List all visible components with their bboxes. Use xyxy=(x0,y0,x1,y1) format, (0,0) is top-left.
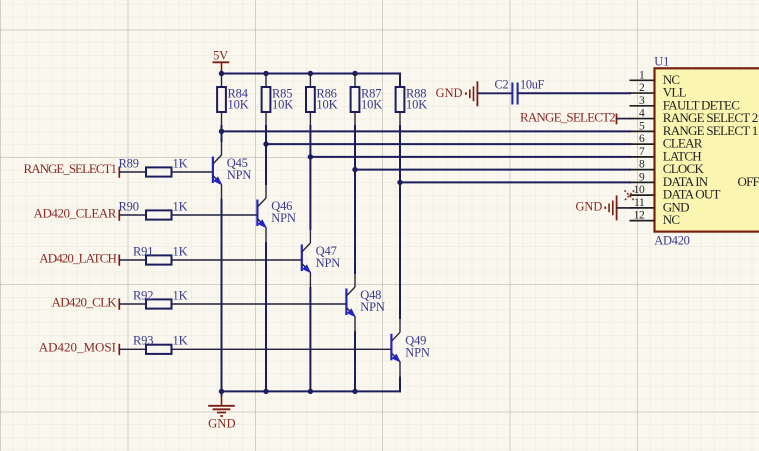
wire collector Q47 xyxy=(309,157,311,243)
pin 3 FAULT DETEC xyxy=(630,95,740,113)
no-ERC marker X pin10 xyxy=(624,190,634,200)
svg-text:5: 5 xyxy=(639,120,645,132)
node junction bottom rail col2 xyxy=(263,389,268,394)
resistor R88 10K xyxy=(396,74,428,113)
capacitor C2 10uF xyxy=(495,78,545,105)
wire top 5V rail xyxy=(221,74,402,88)
svg-text:10K: 10K xyxy=(316,98,337,112)
node junction bottom rail col4 xyxy=(352,389,357,394)
resistor R91 1K xyxy=(133,244,188,264)
svg-text:9: 9 xyxy=(639,171,645,183)
transistor Q47 NPN xyxy=(302,243,340,273)
wire RANGE_SELECT1 to R89 xyxy=(119,171,146,173)
svg-text:10K: 10K xyxy=(361,98,382,112)
svg-text:1K: 1K xyxy=(173,156,188,170)
wire emitter Q49 to rail xyxy=(399,362,401,393)
svg-text:AD420_LATCH: AD420_LATCH xyxy=(39,250,116,265)
wire R92 to base Q48 xyxy=(172,303,347,305)
node junction bottom rail col1 xyxy=(219,389,224,394)
node collector junction Q49 xyxy=(397,180,402,185)
svg-text:1K: 1K xyxy=(173,288,188,302)
resistor R87 10K xyxy=(351,74,383,113)
op-amp U1 AD420 body xyxy=(654,54,759,247)
net label RANGE_SELECT1 xyxy=(24,161,120,178)
svg-text:NPN: NPN xyxy=(316,256,341,270)
resistor R92 1K xyxy=(133,288,188,308)
wire R90 to base Q46 xyxy=(172,214,258,216)
wire C2 to pin2 VLL xyxy=(518,92,631,94)
wire RANGE_SELECT2 to pin4 xyxy=(617,118,632,120)
svg-text:11: 11 xyxy=(634,197,645,209)
pin 1 NC xyxy=(630,69,680,87)
wire node-to-pin9 xyxy=(400,181,631,183)
svg-text:RANGE_SELECT1: RANGE_SELECT1 xyxy=(24,161,117,176)
svg-text:1K: 1K xyxy=(173,334,188,348)
wire R93 to base Q49 xyxy=(172,348,392,350)
wire emitter Q48 to rail xyxy=(354,317,356,393)
wire col3 resistor-to-node xyxy=(309,112,311,157)
resistor R93 1K xyxy=(133,334,188,354)
wire emitter Q47 to rail xyxy=(309,273,311,393)
node junction top rail col4 xyxy=(352,71,357,76)
svg-text:6: 6 xyxy=(639,133,645,145)
svg-text:5V: 5V xyxy=(213,48,228,62)
wire col2 resistor-to-node xyxy=(265,112,267,144)
node collector junction Q47 xyxy=(308,154,313,159)
svg-text:NPN: NPN xyxy=(227,168,252,182)
wire col5 resistor-to-node xyxy=(399,112,401,182)
wire collector Q46 xyxy=(265,144,267,198)
svg-text:12: 12 xyxy=(634,210,645,222)
node collector junction Q46 xyxy=(263,141,268,146)
svg-text:10K: 10K xyxy=(406,98,427,112)
resistor R86 10K xyxy=(306,74,338,113)
svg-text:8: 8 xyxy=(639,159,645,171)
wire col1 resistor-to-node xyxy=(221,112,223,131)
net label AD420_CLK xyxy=(52,294,120,309)
wire node-to-pin7 xyxy=(310,156,631,158)
svg-text:1K: 1K xyxy=(173,244,188,258)
svg-text:1K: 1K xyxy=(173,199,188,213)
node junction bottom rail col3 xyxy=(308,389,313,394)
resistor R84 10K xyxy=(217,74,249,113)
pin 12 NC xyxy=(630,210,680,228)
net label AD420_MOSI xyxy=(39,340,120,355)
svg-text:AD420_MOSI: AD420_MOSI xyxy=(39,340,116,355)
wire node-to-pin5 xyxy=(222,130,632,132)
wire col4 resistor-to-node xyxy=(354,112,356,170)
wire node-to-pin6 xyxy=(266,143,631,145)
wire AD420_CLK to R92 xyxy=(119,303,146,305)
power GND (pin11) xyxy=(575,195,616,220)
svg-text:GND: GND xyxy=(208,417,236,431)
svg-text:7: 7 xyxy=(639,146,645,158)
svg-text:AD420_CLK: AD420_CLK xyxy=(52,294,118,309)
pin 6 CLEAR xyxy=(630,133,703,151)
svg-text:C2: C2 xyxy=(495,78,509,92)
svg-text:10K: 10K xyxy=(272,98,293,112)
svg-text:10K: 10K xyxy=(228,98,249,112)
power 5V xyxy=(213,48,230,73)
svg-text:R90: R90 xyxy=(119,199,139,213)
svg-text:2: 2 xyxy=(639,82,645,94)
wire GND to C2 xyxy=(477,92,511,94)
svg-text:OFF: OFF xyxy=(738,174,759,189)
wire R91 to base Q47 xyxy=(172,259,302,261)
ground GND earth symbol xyxy=(208,391,236,430)
resistor R89 1K xyxy=(119,156,188,176)
net label AD420_LATCH xyxy=(39,250,119,265)
svg-text:3: 3 xyxy=(639,95,645,107)
node junction top rail col2 xyxy=(263,71,268,76)
net label AD420_CLEAR xyxy=(34,205,120,220)
wire GND to pin11 xyxy=(617,207,631,209)
svg-text:1: 1 xyxy=(639,69,645,81)
svg-text:U1: U1 xyxy=(654,54,669,68)
wire AD420_MOSI to R93 xyxy=(119,348,146,350)
pin label OFF (OFFSET, cut off) xyxy=(738,174,759,189)
svg-text:RANGE_SELECT2: RANGE_SELECT2 xyxy=(520,110,615,125)
wire bottom ground rail xyxy=(222,390,402,392)
svg-text:AD420: AD420 xyxy=(654,234,689,248)
svg-text:NC: NC xyxy=(663,212,680,227)
svg-text:NPN: NPN xyxy=(360,300,385,314)
pin 11 GND xyxy=(630,197,690,215)
node junction top rail col3 xyxy=(308,71,313,76)
node collector junction Q45 xyxy=(219,129,224,134)
transistor Q45 NPN xyxy=(213,155,251,185)
svg-text:R91: R91 xyxy=(133,244,153,258)
svg-text:NPN: NPN xyxy=(405,345,430,359)
pin 9 DATA IN xyxy=(630,171,709,189)
wire collector Q48 xyxy=(354,170,356,287)
svg-text:R92: R92 xyxy=(133,288,153,302)
svg-text:GND: GND xyxy=(575,200,602,214)
transistor Q49 NPN xyxy=(391,332,429,362)
wire emitter Q46 to rail xyxy=(265,228,267,393)
svg-text:NPN: NPN xyxy=(271,211,296,225)
pin 10 DATA OUT xyxy=(630,184,721,202)
node collector junction Q48 xyxy=(352,167,357,172)
wire AD420_LATCH to R91 xyxy=(119,259,146,261)
pin 2 VLL xyxy=(630,82,687,100)
pin 5 RANGE SELECT 1 xyxy=(630,120,758,138)
wire R89 to base Q45 xyxy=(172,171,213,173)
pin 4 RANGE SELECT 2 xyxy=(630,108,758,126)
svg-text:R89: R89 xyxy=(119,156,139,170)
wire emitter Q45 to rail xyxy=(221,185,223,393)
wire AD420_CLEAR to R90 xyxy=(119,214,146,216)
svg-text:10uF: 10uF xyxy=(520,78,545,92)
pin 7 LATCH xyxy=(630,146,702,164)
node junction top rail col1 xyxy=(219,71,224,76)
transistor Q46 NPN xyxy=(257,198,295,228)
pin 8 CLOCK xyxy=(630,159,705,177)
wire collector Q49 xyxy=(399,182,401,332)
svg-text:10: 10 xyxy=(634,184,645,196)
transistor Q48 NPN xyxy=(346,287,384,317)
svg-text:GND: GND xyxy=(436,86,463,100)
resistor R90 1K xyxy=(119,199,188,219)
net label RANGE_SELECT2 xyxy=(520,110,617,125)
svg-text:R93: R93 xyxy=(133,334,153,348)
svg-text:AD420_CLEAR: AD420_CLEAR xyxy=(34,205,117,220)
wire collector Q45 xyxy=(221,131,223,155)
resistor R85 10K xyxy=(262,74,294,113)
svg-text:4: 4 xyxy=(639,108,645,120)
power GND (C2) xyxy=(436,81,478,106)
wire node-to-pin8 xyxy=(355,169,631,171)
